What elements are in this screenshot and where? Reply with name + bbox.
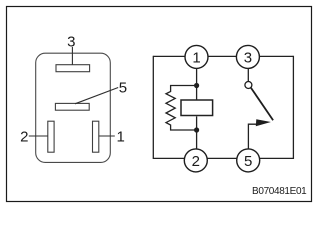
pin 5 slot [55, 103, 89, 110]
terminal 5 [237, 149, 260, 172]
svg-text:B070481E01: B070481E01 [252, 186, 307, 197]
switch arrowhead [256, 119, 271, 126]
relay coil (rectangle) [181, 100, 213, 116]
svg-text:2: 2 [192, 153, 200, 170]
wire right edge [292, 56, 294, 159]
wire terminal 5 to switch arrow [248, 124, 256, 149]
wire coil branch lower [196, 116, 198, 148]
junction dot bottom [194, 127, 199, 132]
pin label 5 [119, 79, 127, 96]
switch blade [251, 88, 273, 121]
switch pivot (open contact) [245, 82, 252, 89]
pin 3 slot [56, 65, 90, 72]
leader line 3 [71, 47, 73, 65]
leader line 5 [75, 88, 118, 104]
leader line 1 [99, 135, 115, 137]
terminal 1 [185, 45, 208, 68]
svg-text:3: 3 [67, 33, 75, 50]
leader line 2 [29, 135, 48, 137]
pin 2 slot [48, 121, 54, 152]
pin label 3 [67, 33, 75, 50]
resistor (parallel with coil) [166, 86, 197, 131]
wire terminal 3 to switch pivot [247, 68, 249, 81]
svg-text:1: 1 [192, 50, 200, 67]
relay connector body [36, 53, 111, 162]
pin label 1 [117, 129, 125, 146]
svg-text:1: 1 [117, 129, 125, 146]
wire top edge [153, 55, 293, 57]
caption B070481E01 [252, 186, 307, 197]
pin label 2 [20, 128, 28, 145]
wire coil branch upper [196, 68, 198, 99]
terminal 3 [236, 45, 259, 68]
junction dot top [194, 83, 199, 88]
pin 1 slot [93, 121, 99, 152]
svg-text:5: 5 [244, 153, 252, 170]
svg-text:5: 5 [119, 79, 127, 96]
terminal 2 [184, 149, 207, 172]
wire bottom edge [153, 157, 293, 159]
svg-text:3: 3 [244, 50, 252, 67]
svg-text:2: 2 [20, 128, 28, 145]
wire left edge [152, 56, 154, 159]
